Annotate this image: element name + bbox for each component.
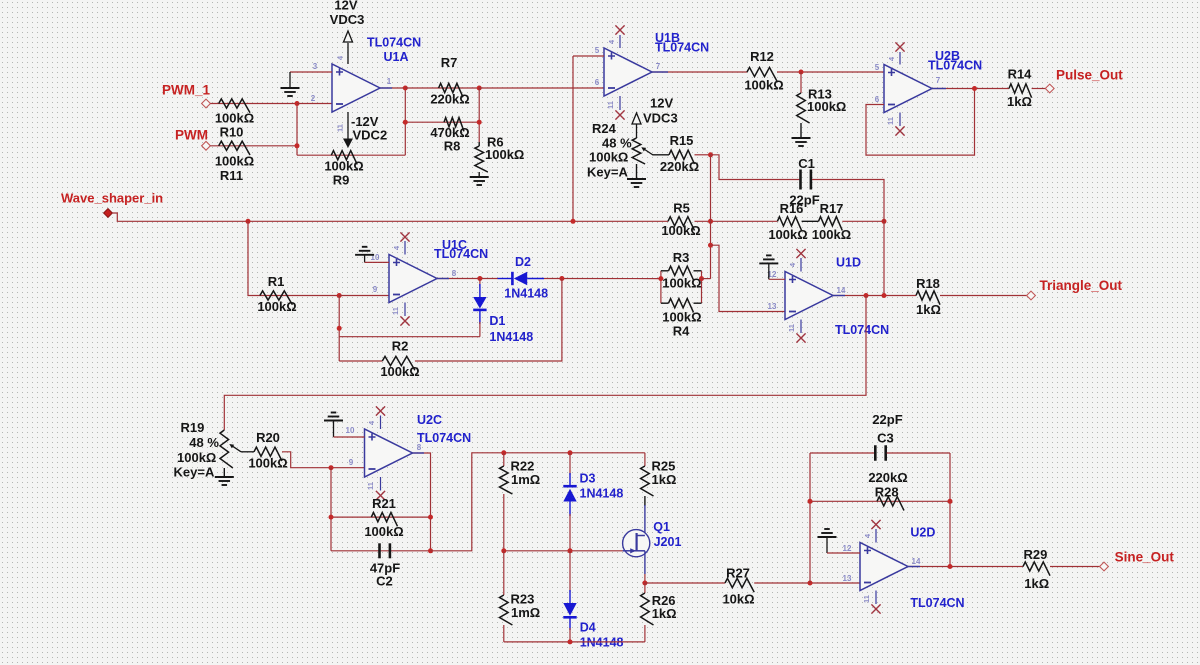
- svg-text:11: 11: [366, 482, 375, 490]
- wire U1A out: [380, 87, 405, 89]
- wire: [544, 278, 661, 280]
- wire: [842, 220, 884, 222]
- svg-text:R20: R20: [256, 430, 280, 445]
- diode D1: [479, 279, 481, 287]
- wire: [338, 296, 340, 362]
- svg-text:TL074CN: TL074CN: [367, 36, 421, 50]
- svg-text:100kΩ: 100kΩ: [768, 227, 807, 242]
- no-connect X U1D pin4: [800, 258, 802, 272]
- svg-text:1N4148: 1N4148: [504, 287, 548, 301]
- svg-text:R24: R24: [592, 121, 617, 136]
- svg-text:D3: D3: [580, 472, 596, 486]
- svg-text:C1: C1: [798, 156, 815, 171]
- ground U2C: [324, 420, 343, 422]
- junction: [477, 86, 482, 91]
- no-connect X U1B pin4: [619, 35, 621, 48]
- svg-text:R15: R15: [670, 133, 694, 148]
- op-amp U1D: [785, 272, 833, 320]
- junction: [337, 326, 342, 331]
- svg-text:100kΩ: 100kΩ: [215, 111, 254, 126]
- wire: [644, 574, 646, 583]
- svg-text:R29: R29: [1023, 547, 1047, 562]
- junction: [477, 276, 482, 281]
- svg-text:100kΩ: 100kΩ: [812, 227, 851, 242]
- resistor R6: [478, 142, 480, 146]
- wire: [296, 104, 298, 156]
- svg-text:220kΩ: 220kΩ: [868, 470, 907, 485]
- ground: [800, 123, 802, 137]
- svg-text:C2: C2: [376, 574, 393, 589]
- svg-text:R1: R1: [268, 274, 285, 289]
- no-connect X U1C pin4: [404, 241, 406, 255]
- svg-text:U1A: U1A: [384, 50, 409, 64]
- wire: [290, 71, 332, 73]
- svg-text:Key=A: Key=A: [587, 165, 628, 180]
- svg-text:1kΩ: 1kΩ: [916, 302, 941, 317]
- no-connect X U2C pin11: [380, 477, 382, 491]
- resistor R11: [210, 145, 297, 147]
- svg-text:7: 7: [936, 76, 941, 85]
- svg-text:R10: R10: [220, 125, 244, 140]
- ground: [478, 172, 480, 176]
- svg-text:R18: R18: [916, 276, 940, 291]
- capacitor C2: [331, 550, 431, 552]
- junction: [568, 639, 573, 644]
- svg-text:Triangle_Out: Triangle_Out: [1040, 278, 1123, 293]
- svg-text:100kΩ: 100kΩ: [807, 99, 846, 114]
- svg-text:7: 7: [656, 62, 661, 71]
- ground: [289, 72, 291, 88]
- junction: [403, 86, 408, 91]
- svg-text:13: 13: [843, 574, 852, 583]
- junction: [246, 219, 251, 224]
- capacitor C3: [810, 452, 874, 454]
- resistor R20: [254, 447, 282, 461]
- svg-text:D4: D4: [580, 621, 596, 635]
- svg-text:11: 11: [787, 324, 796, 332]
- no-connect X U1C pin11: [404, 303, 406, 317]
- svg-text:100kΩ: 100kΩ: [177, 450, 216, 465]
- wire U1D out: [833, 295, 916, 297]
- resistor R7: [405, 87, 479, 89]
- svg-text:100kΩ: 100kΩ: [380, 364, 419, 379]
- svg-text:Key=A: Key=A: [174, 464, 215, 479]
- wire: [224, 296, 866, 431]
- svg-text:5: 5: [595, 46, 600, 55]
- wire: [339, 336, 480, 338]
- svg-text:9: 9: [349, 458, 354, 467]
- svg-text:TL074CN: TL074CN: [928, 59, 982, 73]
- svg-text:13: 13: [768, 302, 777, 311]
- junction: [708, 219, 713, 224]
- svg-text:11: 11: [606, 101, 615, 109]
- svg-text:100kΩ: 100kΩ: [324, 159, 363, 174]
- resistor R14: [1009, 84, 1032, 98]
- resistor R27: [645, 582, 725, 584]
- svg-text:R8: R8: [444, 139, 461, 154]
- terminal Pulse_Out: [1045, 84, 1054, 93]
- wire: [695, 154, 711, 156]
- terminal Sine_Out: [1100, 562, 1109, 571]
- wire: [330, 468, 332, 551]
- svg-text:R21: R21: [372, 496, 396, 511]
- resistor R16: [777, 217, 801, 231]
- svg-text:100kΩ: 100kΩ: [257, 299, 296, 314]
- junction: [658, 276, 663, 281]
- svg-text:14: 14: [837, 286, 846, 295]
- wire: [112, 213, 668, 221]
- svg-text:10kΩ: 10kΩ: [722, 592, 754, 607]
- terminal Wave_shaper_in: [104, 209, 113, 218]
- wire U1B out: [652, 71, 747, 73]
- svg-text:100kΩ: 100kΩ: [662, 310, 701, 325]
- wire: [241, 451, 254, 453]
- resistor R26: [644, 583, 646, 593]
- svg-text:12: 12: [843, 544, 852, 553]
- wire: [802, 220, 819, 222]
- junction: [295, 101, 300, 106]
- junction: [329, 465, 334, 470]
- svg-text:R12: R12: [750, 49, 774, 64]
- wire: [404, 88, 406, 155]
- svg-text:PWM: PWM: [175, 128, 208, 143]
- svg-text:8: 8: [417, 443, 422, 452]
- wire: [297, 103, 332, 105]
- svg-text:2: 2: [311, 94, 316, 103]
- op-amp U1C: [389, 255, 437, 303]
- svg-text:D2: D2: [515, 255, 531, 269]
- wire: [339, 295, 389, 297]
- terminal Triangle_Out: [1027, 291, 1036, 300]
- junction: [428, 548, 433, 553]
- svg-text:Pulse_Out: Pulse_Out: [1056, 68, 1123, 83]
- junction: [808, 499, 813, 504]
- svg-text:R11: R11: [220, 168, 243, 183]
- junction: [642, 581, 647, 586]
- svg-text:1kΩ: 1kΩ: [652, 472, 677, 487]
- resistor R5: [668, 217, 695, 231]
- wire U2C out: [413, 453, 431, 551]
- svg-text:22pF: 22pF: [872, 412, 902, 427]
- resistor R17: [819, 217, 843, 231]
- diode D2: [498, 278, 513, 280]
- svg-text:J201: J201: [654, 535, 682, 549]
- svg-text:D1: D1: [489, 314, 505, 328]
- svg-text:U2D: U2D: [910, 526, 935, 540]
- no-connect X U1D pin11: [800, 320, 802, 334]
- svg-text:R3: R3: [673, 250, 690, 265]
- wire: [248, 221, 339, 295]
- svg-text:100kΩ: 100kΩ: [248, 456, 287, 471]
- svg-text:1mΩ: 1mΩ: [511, 605, 540, 620]
- svg-text:8: 8: [452, 269, 457, 278]
- ground U1C: [355, 254, 374, 256]
- ground: [636, 164, 638, 178]
- junction: [799, 70, 804, 75]
- svg-text:1N4148: 1N4148: [580, 487, 624, 501]
- svg-text:C3: C3: [877, 431, 894, 446]
- svg-text:TL074CN: TL074CN: [835, 323, 889, 337]
- svg-text:R27: R27: [726, 566, 750, 581]
- svg-text:6: 6: [875, 95, 880, 104]
- wire: [653, 154, 670, 156]
- junction: [329, 515, 334, 520]
- resistor R25: [644, 453, 646, 466]
- wire: [478, 88, 480, 142]
- wire U2B out: [932, 88, 1009, 90]
- resistor R23: [503, 551, 505, 595]
- resistor R12: [747, 67, 777, 81]
- junction: [882, 219, 887, 224]
- wire: [812, 180, 884, 296]
- op-amp U1A: [332, 64, 380, 112]
- resistor R18: [916, 291, 940, 305]
- svg-text:R19: R19: [181, 420, 205, 435]
- wire: [479, 87, 604, 89]
- svg-text:1kΩ: 1kΩ: [652, 606, 677, 621]
- svg-text:R7: R7: [441, 55, 458, 70]
- op-amp U2B: [884, 65, 932, 113]
- svg-text:100kΩ: 100kΩ: [744, 78, 783, 93]
- wire: [711, 155, 800, 180]
- svg-text:U2C: U2C: [417, 413, 442, 427]
- junction: [948, 564, 953, 569]
- svg-text:6: 6: [595, 78, 600, 87]
- wire pin13: [711, 245, 786, 311]
- wire: [809, 453, 811, 583]
- wire: [695, 220, 778, 222]
- op-amp U2C: [365, 429, 413, 477]
- junction: [972, 86, 977, 91]
- svg-text:100kΩ: 100kΩ: [364, 524, 403, 539]
- svg-text:11: 11: [862, 595, 871, 603]
- svg-text:48 %: 48 %: [602, 136, 632, 151]
- terminal PWM_1: [202, 99, 211, 108]
- svg-text:TL074CN: TL074CN: [655, 41, 709, 55]
- svg-text:100kΩ: 100kΩ: [589, 150, 628, 165]
- resistor R29: [1023, 562, 1050, 576]
- svg-text:11: 11: [336, 124, 345, 132]
- diode D4: [569, 551, 571, 592]
- wire: [1032, 88, 1046, 90]
- junction: [808, 581, 813, 586]
- svg-text:12V: 12V: [650, 96, 673, 111]
- svg-text:100kΩ: 100kΩ: [661, 223, 700, 238]
- junction: [559, 276, 564, 281]
- svg-text:Sine_Out: Sine_Out: [1115, 550, 1175, 565]
- no-connect X U2C pin4: [380, 416, 382, 430]
- svg-text:22pF: 22pF: [789, 193, 819, 208]
- svg-text:10: 10: [346, 426, 355, 435]
- junction: [337, 293, 342, 298]
- resistor R2: [339, 360, 382, 362]
- potentiometer R24: [632, 138, 645, 164]
- wire U2D out: [908, 566, 1023, 568]
- wire: [644, 496, 646, 506]
- power VDC3 U1A pin4: [347, 43, 349, 64]
- wire: [777, 71, 884, 73]
- svg-text:PWM_1: PWM_1: [162, 83, 211, 98]
- no-connect X U2B pin4: [899, 52, 901, 65]
- wire mid rail: [504, 550, 623, 552]
- svg-text:Q1: Q1: [653, 520, 670, 534]
- resistor R10: [210, 103, 297, 105]
- junction: [708, 243, 713, 248]
- svg-text:VDC3: VDC3: [330, 12, 365, 27]
- resistor R4: [701, 271, 703, 303]
- svg-text:100kΩ: 100kΩ: [215, 154, 254, 169]
- svg-text:R28: R28: [875, 485, 899, 500]
- svg-text:220kΩ: 220kΩ: [430, 92, 469, 107]
- resistor R8: [405, 121, 479, 123]
- power VDC3 R24: [632, 113, 641, 124]
- svg-text:48 %: 48 %: [189, 435, 219, 450]
- ground: [223, 468, 225, 476]
- svg-text:5: 5: [875, 63, 880, 72]
- junction: [708, 152, 713, 157]
- wire: [431, 453, 645, 551]
- potentiometer R19: [220, 430, 233, 468]
- junction: [864, 293, 869, 298]
- transistor Q1: [623, 530, 650, 557]
- svg-text:TL074CN: TL074CN: [417, 431, 471, 445]
- ground U1D: [759, 262, 778, 264]
- no-connect X U1B pin11: [619, 96, 621, 110]
- wire U2B feedback: [866, 89, 975, 156]
- wire: [949, 453, 951, 567]
- svg-text:220kΩ: 220kΩ: [660, 159, 699, 174]
- diode D3: [569, 453, 571, 475]
- resistor R13: [800, 72, 802, 93]
- wire: [282, 452, 365, 468]
- resistor R1: [260, 291, 292, 305]
- svg-text:1: 1: [387, 77, 392, 86]
- wire U1C out: [437, 278, 498, 280]
- svg-text:R14: R14: [1008, 67, 1033, 82]
- svg-text:TL074CN: TL074CN: [910, 596, 964, 610]
- terminal PWM: [202, 141, 211, 150]
- svg-text:R17: R17: [820, 201, 844, 216]
- svg-text:VDC3: VDC3: [643, 111, 678, 126]
- junction: [501, 548, 506, 553]
- svg-text:14: 14: [912, 557, 921, 566]
- svg-text:11: 11: [886, 117, 895, 125]
- svg-text:1mΩ: 1mΩ: [511, 472, 540, 487]
- resistor R28: [810, 500, 950, 502]
- svg-text:100kΩ: 100kΩ: [485, 147, 524, 162]
- wire: [940, 295, 1027, 297]
- wire: [710, 155, 712, 279]
- svg-text:U1D: U1D: [836, 256, 861, 270]
- svg-text:VDC2: VDC2: [353, 128, 388, 143]
- junction: [403, 120, 408, 125]
- svg-text:11: 11: [391, 307, 400, 315]
- svg-text:100kΩ: 100kΩ: [662, 276, 701, 291]
- svg-text:TL074CN: TL074CN: [434, 247, 488, 261]
- junction: [501, 450, 506, 455]
- ground U2D: [818, 536, 837, 538]
- svg-text:12V: 12V: [334, 0, 357, 13]
- svg-text:3: 3: [313, 62, 318, 71]
- resistor R21: [331, 516, 431, 518]
- resistor R15: [669, 150, 695, 164]
- no-connect X U2B pin11: [899, 113, 901, 127]
- svg-text:1kΩ: 1kΩ: [1007, 94, 1032, 109]
- svg-text:R2: R2: [392, 339, 409, 354]
- wire: [702, 278, 711, 280]
- no-connect X U2D pin4: [875, 529, 877, 543]
- svg-text:R9: R9: [333, 173, 350, 188]
- resistor R3: [660, 271, 662, 303]
- svg-text:Wave_shaper_in: Wave_shaper_in: [61, 191, 163, 206]
- capacitor C1: [799, 170, 802, 190]
- wire U1B plus: [573, 55, 604, 57]
- wire bottom rail: [504, 641, 645, 643]
- resistor R9: [297, 154, 405, 156]
- svg-text:1kΩ: 1kΩ: [1024, 576, 1049, 591]
- op-amp U2D: [860, 543, 908, 591]
- svg-text:1N4148: 1N4148: [489, 330, 533, 344]
- svg-text:9: 9: [373, 285, 378, 294]
- power VDC2 U1A pin11: [347, 112, 349, 139]
- op-amp U1B: [604, 48, 652, 96]
- svg-text:R5: R5: [673, 201, 690, 216]
- wire: [1050, 566, 1100, 568]
- svg-text:R4: R4: [673, 324, 690, 339]
- resistor R22: [503, 453, 505, 466]
- no-connect X U2D pin11: [875, 591, 877, 605]
